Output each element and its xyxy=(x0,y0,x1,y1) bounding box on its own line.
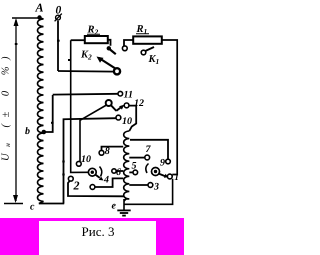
svg-text:11: 11 xyxy=(124,90,133,101)
svg-text:7: 7 xyxy=(146,144,152,155)
svg-text:c: c xyxy=(30,202,35,213)
svg-text:K2: K2 xyxy=(80,50,92,62)
svg-text:9: 9 xyxy=(160,158,165,169)
svg-text:5: 5 xyxy=(132,161,137,172)
svg-text:8: 8 xyxy=(105,146,110,157)
svg-text:e: e xyxy=(112,201,117,212)
svg-text:10: 10 xyxy=(122,116,132,127)
svg-text:10: 10 xyxy=(81,154,91,165)
svg-text:K1: K1 xyxy=(148,54,160,66)
svg-text:A: A xyxy=(35,1,44,15)
svg-text:0: 0 xyxy=(56,5,62,17)
svg-text:12: 12 xyxy=(134,98,144,109)
svg-text:4: 4 xyxy=(103,175,109,186)
svg-text:6: 6 xyxy=(116,167,121,178)
svg-text:b: b xyxy=(25,126,30,137)
svg-text:1: 1 xyxy=(174,173,179,183)
svg-text:3: 3 xyxy=(153,182,159,193)
svg-text:Uн (± 0 %): Uн (± 0 %) xyxy=(1,50,13,161)
svg-text:2: 2 xyxy=(73,179,80,193)
